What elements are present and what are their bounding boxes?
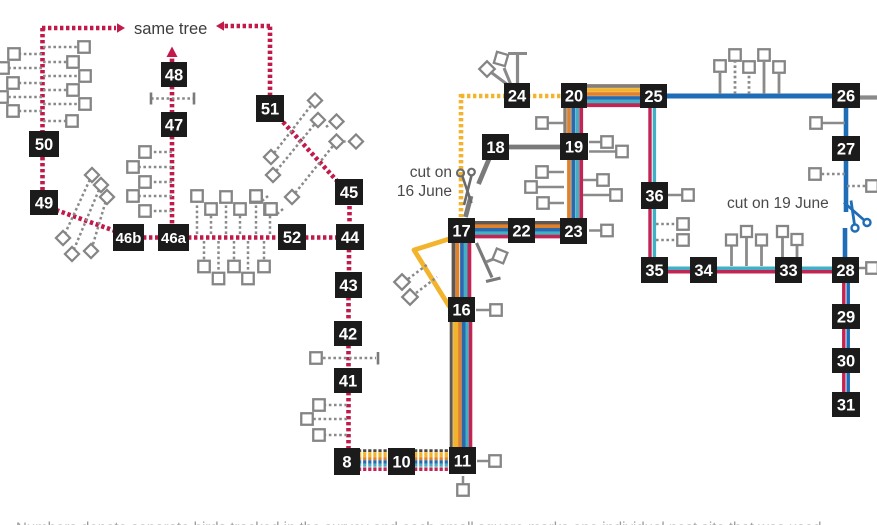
node 23 (560, 218, 587, 244)
wire trunk node 20 to node 25 (gray yellow orange blue teal crimson) (585, 86, 643, 105)
wire crimson+blue node 30 to node 31 (844, 372, 848, 393)
leaf left of wire 19-23 #3 (537, 197, 564, 209)
svg-text:34: 34 (694, 262, 713, 280)
branch from node 17 with diamond leaf and T end (477, 243, 508, 282)
leaf dotted below node 36 #2 (656, 234, 689, 246)
node 41 (334, 368, 362, 393)
wire blue cut to node 28 (843, 228, 848, 258)
leaf right of node 11 (477, 455, 501, 467)
node 30 (832, 348, 860, 373)
node 11 (449, 447, 476, 474)
wire crimson+teal node 25 down to node 36 (650, 107, 654, 184)
wire gray node 18 to node 19 (508, 145, 561, 150)
svg-text:51: 51 (261, 100, 279, 118)
leaf above wire 46a-52 #3 (220, 191, 232, 234)
leaf right of node 50 #6 (43, 115, 78, 127)
svg-text:36: 36 (645, 187, 663, 205)
node 17 (448, 218, 475, 243)
svg-text:22: 22 (512, 222, 530, 240)
wire red dotted node 52 to node 44 (305, 235, 337, 240)
svg-text:50: 50 (35, 136, 53, 154)
leaf above wire 46a-52 #4 (234, 203, 246, 234)
svg-text:44: 44 (341, 229, 360, 247)
tilted leaf above node 24 (494, 52, 511, 85)
svg-text:49: 49 (35, 194, 53, 212)
leaf above wire 25-26 #1 (714, 60, 726, 94)
svg-text:30: 30 (837, 352, 855, 370)
svg-text:16 June: 16 June (397, 183, 452, 200)
wire trunk node 16 down to node 11 (451, 320, 470, 450)
branch with diamond leaves at node 51 diagonal #1 (264, 93, 322, 164)
leaf left of node 47 #2 (127, 161, 172, 173)
wire red dotted node 44 to node 43 (347, 249, 352, 273)
wire blue node 26 to node 27 (844, 107, 849, 137)
wire red dotted diagonal node 49 to node 46b (56, 210, 118, 232)
node 52 (278, 224, 306, 250)
leaf right of node 23 (589, 225, 613, 237)
diamond leaf of yellow zigzag #2 (402, 277, 437, 305)
svg-text:43: 43 (339, 277, 357, 295)
extra diamond leaves near node 45 (326, 114, 363, 148)
branch with diamond leaves at node 51 diagonal #3 (285, 134, 344, 204)
svg-text:Numbers denote separate birds: Numbers denote separate birds tracked in… (16, 520, 821, 525)
leaf right of node 50 #5 (43, 98, 91, 110)
wire red dotted node 51 up and arrow to same tree (right) (216, 21, 270, 96)
svg-text:29: 29 (837, 308, 855, 326)
svg-text:46b: 46b (116, 230, 142, 247)
svg-text:11: 11 (454, 452, 471, 470)
node 8 (334, 448, 360, 475)
branch with diamond leaves at node 49 diagonal #2 (65, 178, 108, 261)
leaf dotted below node 36 #1 (656, 218, 689, 230)
svg-text:24: 24 (508, 87, 527, 105)
scissors cut on 19 June (844, 201, 871, 232)
wire trunk node 17 to node 22 to node 23 (472, 223, 561, 237)
svg-text:23: 23 (564, 223, 582, 241)
wire trunk node 20 down to node 19 (565, 107, 581, 134)
leaf left of wire 20-19 (536, 117, 564, 129)
standing leaf on wire 34-33 #3 (756, 235, 767, 267)
leaf above wire 25-26 #4 (758, 49, 770, 94)
wire red dotted node 44 to node 45 (347, 206, 352, 225)
diamond leaf of yellow zigzag #1 (394, 264, 428, 290)
leaf left of node 50 #1 (8, 48, 42, 60)
node 27 (832, 136, 860, 161)
svg-text:27: 27 (837, 140, 855, 158)
leaf right of blue wire below 27 (847, 180, 877, 192)
branch with diamond leaves at node 49 diagonal #3 (84, 190, 114, 258)
leaf right of wire 19-23 #1 (583, 174, 609, 186)
branch with diamond leaves at node 51 diagonal #2 (266, 113, 325, 182)
leaf left of wire 41-8 #2 (301, 413, 347, 425)
wire blue node 27 down to cut (844, 160, 849, 212)
wire red dotted node 50 to node 49 (40, 157, 45, 191)
leaf right of node 36 (667, 189, 694, 201)
wire teal+crimson node 35 to node 34 to node 33 to node 28 (666, 268, 834, 272)
wire red dotted node 47 to node 46a (170, 136, 175, 225)
leaf above wire 46a-52 #5 (250, 191, 262, 234)
leaf below wire 46a-52 #3 (228, 241, 240, 272)
leaf above wire 25-26 #2 (729, 49, 741, 94)
svg-text:16: 16 (452, 301, 470, 319)
marker leaf and bar between node 42 and node 41 (310, 352, 378, 365)
standing leaf on wire 34-33 #5 (792, 234, 803, 257)
wire red dotted node 41 to node 8 (346, 392, 351, 449)
svg-text:cut on 19 June: cut on 19 June (727, 195, 829, 212)
svg-text:18: 18 (486, 139, 504, 157)
node 42 (334, 321, 362, 346)
node 31 (832, 392, 860, 417)
svg-text:47: 47 (165, 116, 183, 134)
extra square leaves lower left of node 51 diagonal (250, 190, 283, 215)
svg-text:25: 25 (644, 88, 662, 106)
svg-text:10: 10 (392, 453, 410, 471)
node 51 (256, 95, 284, 122)
svg-text:28: 28 (836, 262, 854, 280)
leaf right of node 50 #1 (43, 41, 90, 53)
leaf right of wire 19-23 #2 (583, 189, 622, 201)
leaf left of wire 19-23 #2 (525, 181, 564, 193)
wire trunk node 17 down to node 16 (454, 241, 470, 299)
node 18 (482, 134, 509, 160)
leaf right of node 19 #1 (589, 136, 613, 148)
svg-text:31: 31 (837, 396, 855, 414)
svg-text:17: 17 (452, 222, 470, 240)
leaf above wire 25-26 #5 (773, 61, 785, 94)
leaf left of node 50 #2 (0, 62, 42, 74)
wire red dotted node 42 to node 41 (346, 345, 351, 369)
svg-text:8: 8 (342, 453, 351, 471)
leaf left of node 50 #5 (7, 105, 42, 117)
node 22 (508, 218, 535, 243)
node 10 (388, 448, 415, 475)
leaf left of node 47 #5 (139, 205, 172, 217)
svg-text:41: 41 (339, 372, 357, 390)
node 48 (161, 62, 187, 87)
wire red dotted vertical top-left down to node 50 (40, 28, 45, 132)
svg-text:42: 42 (339, 325, 357, 343)
leaf below wire 46a-52 #4 (242, 241, 254, 284)
leaf left of wire 26-27 (810, 117, 845, 129)
leaf left of wire 41-8 #1 (313, 399, 347, 411)
node 50 (29, 131, 59, 157)
wire red dotted node 48 to node 47 (170, 86, 175, 113)
svg-text:same tree: same tree (134, 20, 207, 38)
svg-text:35: 35 (645, 262, 663, 280)
leaf left of node 47 #4 (127, 190, 172, 202)
wire red arrow up above node 48 (167, 47, 178, 63)
leaf right of node 50 #2 (43, 56, 79, 68)
wire red dotted node 43 to node 42 (346, 297, 351, 322)
svg-text:45: 45 (340, 184, 358, 202)
leaf above wire 46a-52 #1 (191, 190, 203, 234)
wire yellow dotted corner to node 24 and node 20 (461, 94, 562, 99)
leaf right of node 16 (476, 304, 502, 316)
node 28 (832, 257, 859, 283)
leaf below wire 46a-52 #5 (258, 241, 270, 272)
node 16 (448, 297, 475, 322)
diamond leaf above node 24 (479, 61, 508, 85)
wire yellow solid zigzag node 17 to node 16 (414, 239, 449, 306)
wire blue node 25 to node 26 (665, 94, 834, 99)
scissors cut on 16 June (457, 169, 475, 205)
svg-text:48: 48 (165, 66, 183, 84)
leaf left of wire 19-23 #1 (536, 166, 564, 178)
leaf above wire 46a-52 #2 (205, 203, 217, 234)
node 49 (30, 190, 58, 215)
svg-text:26: 26 (837, 87, 855, 105)
node 24 (504, 83, 530, 108)
leaf left of wire 41-8 #3 (313, 429, 347, 441)
wire dashed trunk node 8 to node 10 to node 11 (358, 451, 452, 470)
node 20 (561, 83, 587, 108)
wire red dotted node 46b to node 46a (143, 235, 159, 240)
node 44 (336, 224, 364, 250)
node 46a (158, 224, 189, 251)
wire yellow dotted vertical down to node 17 (459, 94, 464, 217)
wire red dotted node 46a to node 52 (188, 235, 278, 240)
node 26 (832, 83, 860, 108)
svg-text:19: 19 (565, 138, 583, 156)
node 19 (560, 133, 588, 160)
node 29 (832, 304, 860, 329)
T bar above node 24 (508, 54, 527, 86)
branch with diamond leaves at node 49 diagonal #1 (56, 168, 99, 245)
leaf below wire 46a-52 #2 (213, 241, 225, 284)
node 33 (775, 257, 802, 283)
svg-text:33: 33 (779, 262, 797, 280)
leaf below wire 46a-52 #1 (198, 241, 210, 272)
leaf left of node 50 #4 (0, 91, 42, 103)
wire trunk node 19 down to node 23 (569, 160, 581, 219)
svg-text:46a: 46a (161, 230, 187, 247)
node 46b (113, 224, 144, 251)
leaf above wire 25-26 #3 (743, 61, 755, 94)
svg-text:52: 52 (283, 229, 301, 247)
marker bar below node 48 (151, 93, 194, 105)
svg-text:20: 20 (565, 87, 583, 105)
leaf left of node 50 #3 (7, 77, 42, 89)
node 25 (640, 84, 667, 108)
wire crimson+blue node 29 to node 30 (844, 328, 848, 349)
leaf left of node 47 #1 (139, 146, 172, 158)
wire gray node 26 to right edge (858, 95, 877, 99)
leaf left below node 27 (809, 168, 845, 180)
standing leaf on wire 34-33 #2 (741, 226, 752, 266)
svg-text:cut on: cut on (410, 164, 452, 181)
leaf above wire 46a-52 #6 (264, 203, 276, 234)
standing leaf on wire 34-33 #1 (726, 235, 737, 267)
leaf right of node 50 #3 (43, 70, 91, 82)
leaf below node 11 (457, 476, 469, 496)
node 36 (641, 182, 668, 209)
node 35 (641, 257, 668, 283)
leaf left of node 47 #3 (139, 176, 172, 188)
leaf right of node 19 #2 (589, 146, 628, 158)
wire crimson+blue node 28 to node 29 (844, 282, 848, 305)
node 43 (335, 272, 362, 298)
leaf right of node 28 (858, 262, 877, 274)
wire crimson+teal node 36 down to node 35 (650, 208, 654, 258)
node 45 (335, 179, 363, 205)
standing leaf on wire 34-33 #4 (777, 226, 788, 257)
node 47 (161, 112, 187, 137)
leaf right of node 50 #4 (43, 84, 79, 96)
wire red dotted arrow to same tree (left) (42, 23, 125, 33)
node 34 (690, 257, 717, 283)
wire gray diagonal node 18 to node 17 (cut) (466, 159, 490, 217)
wire red dotted diagonal node 45 to node 51 (283, 122, 338, 182)
